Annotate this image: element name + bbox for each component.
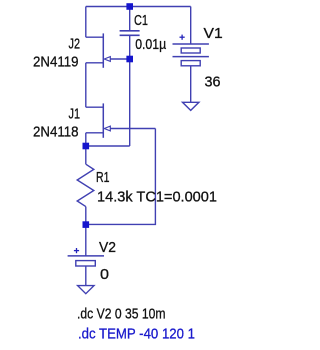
node square R1 top <box>83 143 90 150</box>
battery V1 <box>173 7 209 103</box>
wire R1 bottom node down to V2 <box>85 224 87 256</box>
svg-text:J1: J1 <box>69 105 81 122</box>
svg-text:C1: C1 <box>134 12 148 29</box>
svg-text:2N4118: 2N4118 <box>33 123 79 140</box>
ground (V1) <box>183 102 199 110</box>
svg-text:2N4119: 2N4119 <box>33 53 79 70</box>
transistor J1 <box>86 103 156 137</box>
wire top rail <box>86 6 191 8</box>
wire J1 gate feedback right/down/left to R1 bottom node <box>86 129 156 225</box>
svg-text:.dc TEMP -40 120 1: .dc TEMP -40 120 1 <box>78 325 195 342</box>
plus sign V2 <box>74 248 79 253</box>
svg-text:.dc V2 0 35 10m: .dc V2 0 35 10m <box>77 306 166 323</box>
wire J1 source down to node <box>85 133 87 146</box>
wire J2 source to J1 drain <box>85 63 87 107</box>
svg-text:0.01µ: 0.01µ <box>135 36 166 53</box>
resistor R1 <box>77 146 94 225</box>
svg-text:14.3k TC1=0.0001: 14.3k TC1=0.0001 <box>97 189 217 206</box>
svg-text:V1: V1 <box>204 25 223 42</box>
battery V2 <box>68 256 104 286</box>
wire middle vertical J2 gate to R1 top node <box>129 59 131 146</box>
node square J2 gate/C1 <box>126 56 133 63</box>
svg-text:R1: R1 <box>96 169 110 186</box>
svg-text:36: 36 <box>205 73 221 90</box>
svg-text:0: 0 <box>100 266 109 283</box>
wire left rail upper <box>85 7 87 38</box>
wire R1 top node horizontal <box>86 145 130 147</box>
node square R1 bottom <box>83 221 90 228</box>
ground (V2) <box>78 286 94 294</box>
plus sign V1 <box>180 35 185 40</box>
svg-text:V2: V2 <box>99 239 116 256</box>
svg-text:J2: J2 <box>69 35 81 52</box>
node square top rail/C1 <box>126 3 133 10</box>
capacitor C1 <box>120 7 140 60</box>
transistor J2 <box>86 33 130 67</box>
